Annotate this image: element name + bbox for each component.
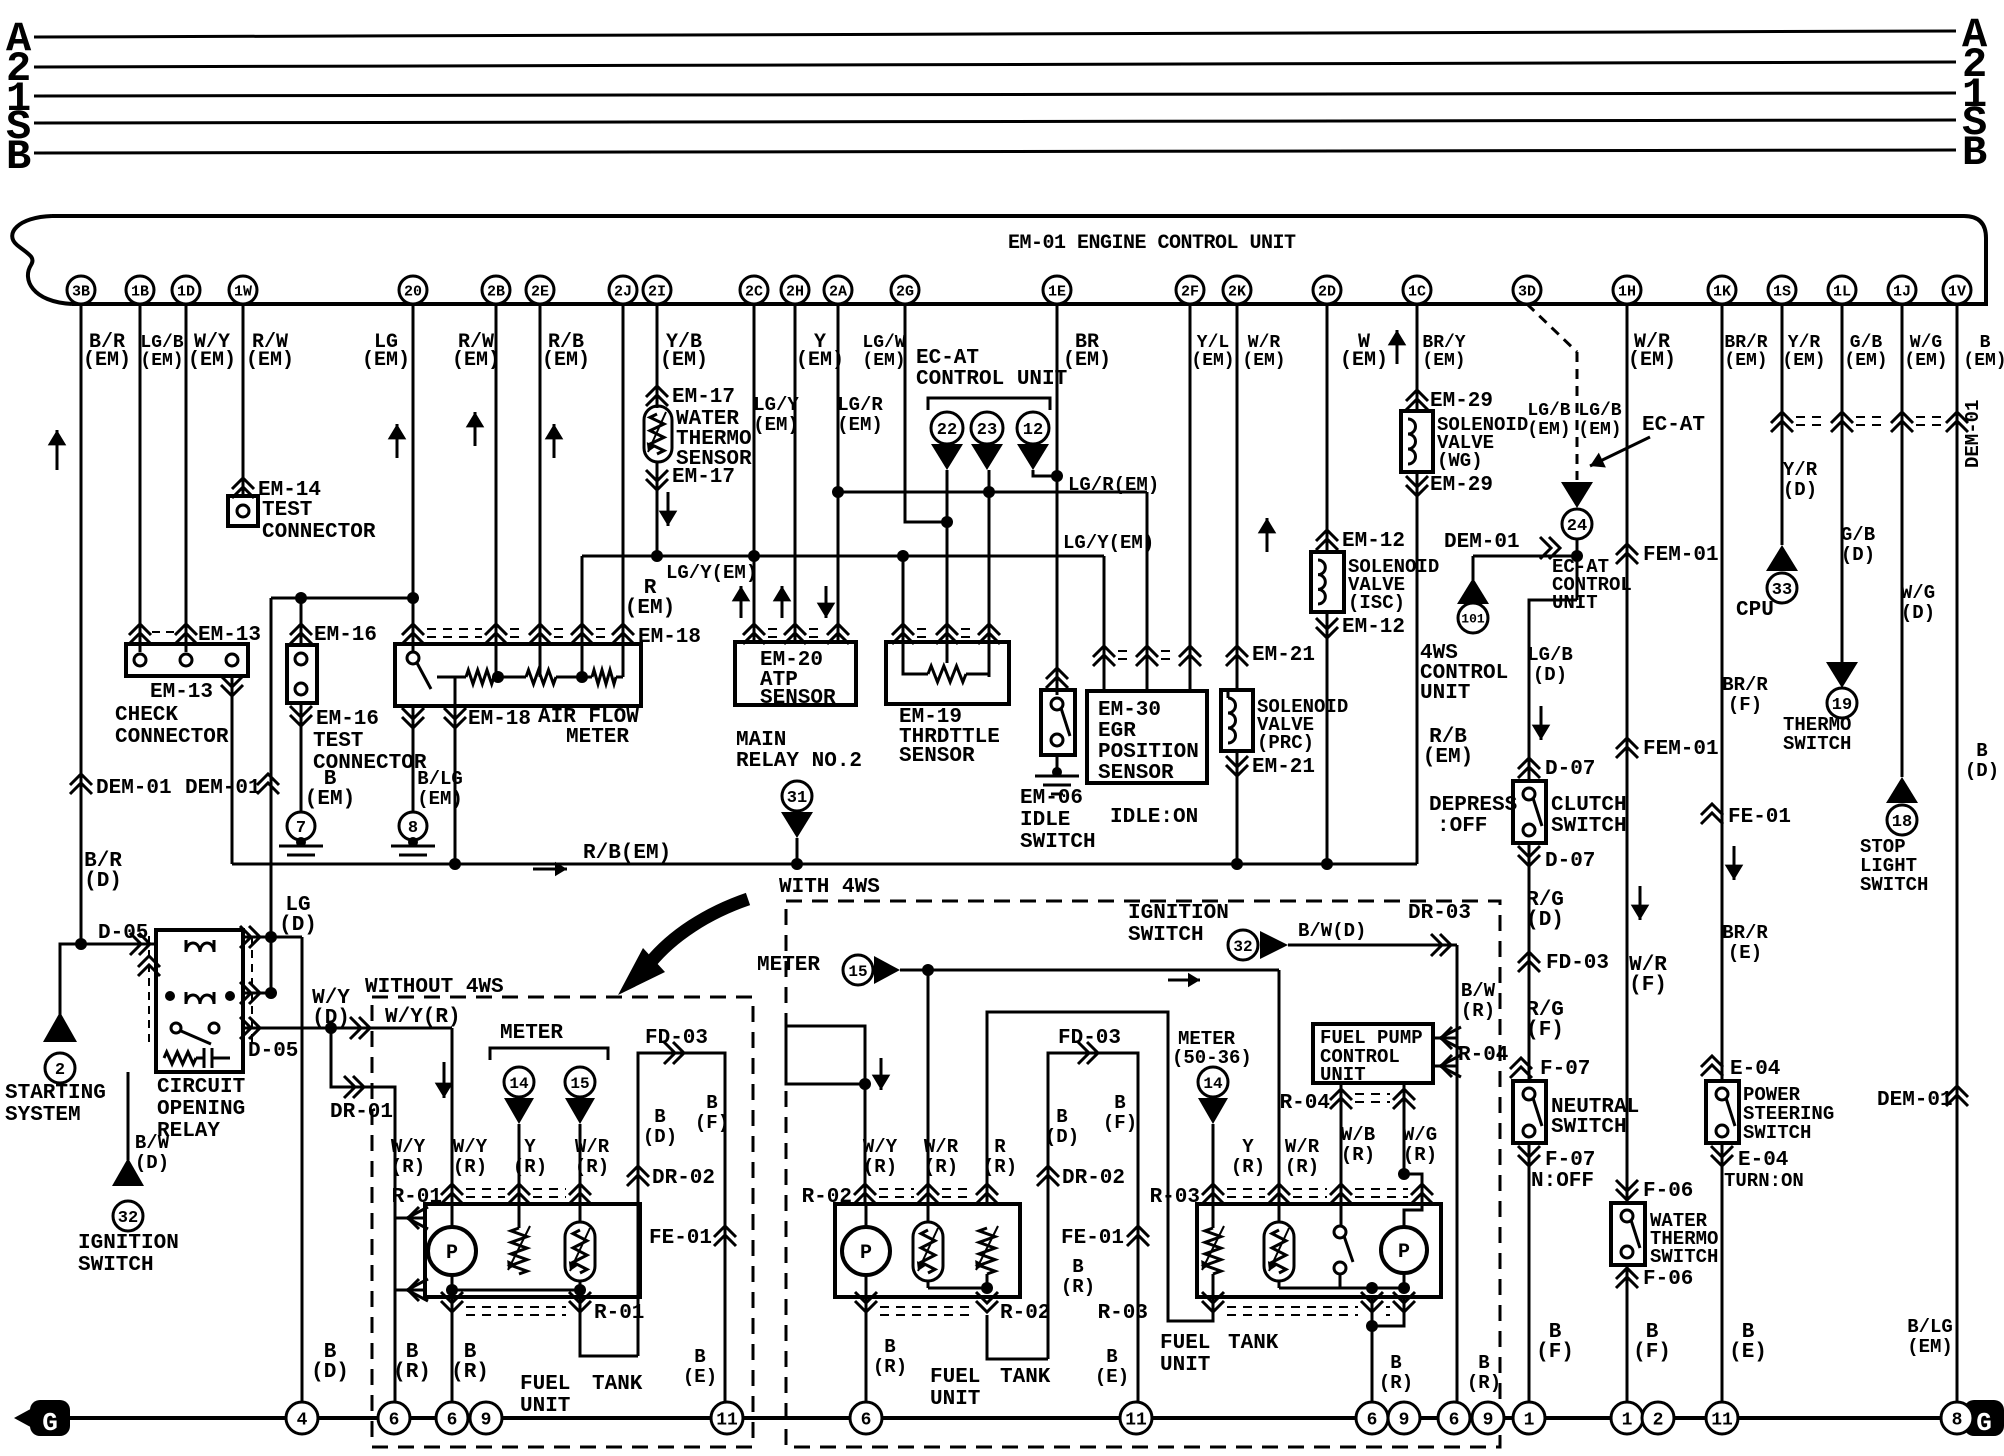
- svg-text:(EM): (EM): [1724, 351, 1767, 371]
- svg-text:SENSOR: SENSOR: [899, 745, 975, 768]
- svg-text:EGR: EGR: [1098, 720, 1136, 743]
- ECU pin 1S: [1768, 276, 1796, 304]
- svg-text:DEPRESS: DEPRESS: [1429, 794, 1517, 817]
- tank2 internal bottom: [928, 1287, 987, 1290]
- wire to ground circle 1b: [1626, 1265, 1629, 1402]
- solenoid valve WG box: [1401, 411, 1433, 472]
- svg-text:LG/Y: LG/Y: [753, 394, 799, 416]
- wire tank2 resistor to loop: [987, 1315, 1048, 1359]
- svg-text:OPENING: OPENING: [157, 1098, 245, 1121]
- wire tank3 B(R) to ground: [1371, 1297, 1374, 1402]
- svg-text:(R): (R): [1467, 1372, 1501, 1394]
- svg-text:METER: METER: [500, 1022, 563, 1045]
- svg-text:UNIT: UNIT: [1552, 592, 1598, 614]
- connector DR-02 tank1: [627, 1166, 649, 1177]
- svg-text:(E): (E): [1728, 942, 1762, 964]
- svg-text:1C: 1C: [1408, 283, 1426, 300]
- ground bus circle 8: [1941, 1402, 1973, 1434]
- svg-text:(EM): (EM): [305, 788, 355, 811]
- circuit opening relay box: [156, 930, 243, 1072]
- svg-text:31: 31: [787, 789, 807, 808]
- ignition switch circle 32: [113, 1201, 143, 1231]
- arrow on R/B bus: [533, 868, 567, 871]
- svg-text:(D): (D): [643, 1126, 677, 1148]
- svg-text:4: 4: [297, 1410, 308, 1430]
- fuel pump control unit box: [1313, 1024, 1433, 1083]
- connector F-06 below: [1616, 1268, 1638, 1279]
- svg-text:P: P: [860, 1242, 872, 1265]
- down arrow on 3D wire: [1540, 706, 1543, 740]
- bus line B: [34, 150, 1956, 153]
- connector chevron below EM-13: [221, 685, 243, 696]
- svg-text:SWITCH: SWITCH: [1020, 831, 1096, 854]
- svg-text:(F): (F): [695, 1112, 729, 1134]
- svg-text:FE-01: FE-01: [1728, 806, 1791, 829]
- svg-text:(EM): (EM): [625, 597, 675, 620]
- junction dot meter wire: [922, 964, 934, 976]
- gauge resistor tank3: [1205, 1228, 1221, 1274]
- wire 20 LG vertical: [412, 598, 415, 652]
- svg-text:(F): (F): [1633, 1341, 1671, 1364]
- wire to EM-16: [300, 598, 303, 645]
- svg-text:SWITCH: SWITCH: [1860, 874, 1928, 896]
- svg-text:RELAY NO.2: RELAY NO.2: [736, 750, 862, 773]
- wire 1W R/W vertical: [242, 304, 245, 496]
- wire 2G vertical with jog: [905, 304, 947, 522]
- svg-text:8: 8: [408, 819, 418, 838]
- svg-text:14: 14: [509, 1075, 529, 1093]
- wire 1J W/G vertical: [1901, 304, 1904, 777]
- bus line 1: [34, 93, 1956, 96]
- svg-text:(D): (D): [1841, 544, 1875, 566]
- connector EM-21 above: [1226, 646, 1248, 657]
- svg-text:9: 9: [481, 1410, 492, 1430]
- wire 3D to neutral switch: [1528, 843, 1531, 1081]
- svg-text:12: 12: [1023, 421, 1043, 440]
- ground symbol below 7: [296, 837, 306, 847]
- ground G symbol left: [14, 1406, 36, 1430]
- svg-text:(EM): (EM): [1063, 349, 1111, 372]
- ECU pin 1L: [1828, 276, 1856, 304]
- svg-text:EM-21: EM-21: [1252, 756, 1315, 779]
- water thermo switch box: [1611, 1203, 1645, 1265]
- wire LG/R(EM) horizontal: [838, 491, 1147, 494]
- svg-text:FUEL: FUEL: [930, 1366, 980, 1389]
- svg-text:TANK: TANK: [1000, 1366, 1051, 1389]
- tank1 stubs from left wire: [395, 1217, 425, 1220]
- ground bus circle 6: [850, 1402, 882, 1434]
- svg-text:DEM-01: DEM-01: [1444, 531, 1520, 554]
- air flow meter internal wire: [437, 676, 466, 679]
- svg-text:BR/R: BR/R: [1722, 674, 1768, 696]
- wire 2E vertical: [539, 304, 542, 677]
- EM-13 pin circles: [134, 654, 146, 666]
- tank1 internal bottom wire: [452, 1289, 580, 1292]
- ground below idle switch: [1056, 755, 1059, 772]
- svg-text:EM-06: EM-06: [1020, 787, 1083, 810]
- svg-text:LG/R: LG/R: [837, 394, 883, 416]
- svg-text:33: 33: [1772, 581, 1792, 600]
- connector FEM-01 lower: [1616, 738, 1638, 749]
- ground bus circle 6: [378, 1402, 410, 1434]
- svg-text:W/B: W/B: [1341, 1124, 1375, 1146]
- svg-text:IGNITION: IGNITION: [1128, 902, 1229, 925]
- svg-text:1B: 1B: [131, 283, 149, 300]
- svg-text:R-03: R-03: [1098, 1302, 1148, 1325]
- svg-text:(F): (F): [1103, 1112, 1137, 1134]
- svg-text:(EM): (EM): [1191, 351, 1234, 371]
- svg-text:SYSTEM: SYSTEM: [5, 1104, 81, 1127]
- svg-text:CPU: CPU: [1736, 599, 1774, 622]
- svg-text:(R): (R): [873, 1356, 907, 1378]
- ECU pin 2C: [740, 276, 768, 304]
- ground bus circle 9: [1472, 1402, 1504, 1434]
- svg-text:(EM): (EM): [660, 349, 708, 372]
- svg-text:STARTING: STARTING: [5, 1082, 106, 1105]
- wire 2B vertical: [495, 304, 498, 677]
- svg-text:(WG): (WG): [1437, 450, 1483, 472]
- connector R-04 right of box: [1433, 1037, 1457, 1040]
- svg-text:(EM): (EM): [862, 351, 905, 371]
- svg-text:UNIT: UNIT: [930, 1388, 980, 1411]
- gauge resistor tank1: [511, 1228, 527, 1274]
- up arrow on wire 3B: [56, 430, 59, 470]
- svg-text:LG/B: LG/B: [1527, 401, 1570, 421]
- connector chevron above idle switch: [1046, 668, 1068, 679]
- junction dot 2I on LG/Y line: [651, 550, 663, 562]
- wire LG/Y right end down to EGR: [1103, 556, 1106, 691]
- ground circle 7: [287, 812, 315, 840]
- connector DR-02 tank2: [1037, 1166, 1059, 1177]
- up arrow near wire 2D: [1396, 330, 1399, 364]
- svg-text:B: B: [1976, 740, 1987, 762]
- triangle right of 15: [874, 956, 900, 984]
- wire 2D vertical: [1326, 304, 1329, 552]
- connector DEM-01 on wire 3B: [70, 774, 92, 785]
- fuel tank 3 box: [1197, 1204, 1441, 1297]
- svg-text:(EM): (EM): [542, 349, 590, 372]
- svg-text:METER: METER: [757, 954, 820, 977]
- svg-text:UNIT: UNIT: [1420, 682, 1470, 705]
- relay switch: [171, 1023, 181, 1033]
- wire 2K to R/B bus: [1236, 751, 1239, 864]
- ECU pin 1D: [172, 276, 200, 304]
- svg-text:9: 9: [1483, 1410, 1494, 1430]
- svg-text:B: B: [6, 133, 31, 181]
- svg-text:LG/R(EM): LG/R(EM): [1068, 474, 1159, 496]
- svg-text:DEM-01: DEM-01: [1962, 400, 1984, 468]
- svg-text:(R): (R): [513, 1156, 547, 1178]
- wire 3B B/R vertical: [80, 304, 83, 944]
- ground circle 8: [399, 812, 427, 840]
- svg-text:B/W: B/W: [1461, 980, 1496, 1002]
- wire W/B down: [1340, 1098, 1343, 1226]
- svg-text:3B: 3B: [72, 283, 90, 300]
- wire 2D to R/B bus: [1326, 612, 1329, 864]
- svg-text:LG/B: LG/B: [140, 333, 183, 353]
- svg-text:(EM): (EM): [1578, 420, 1621, 440]
- connector row below tank2: [880, 1306, 973, 1308]
- wire R/B(EM) horizontal bus: [232, 863, 1417, 866]
- svg-text:TURN:ON: TURN:ON: [1724, 1170, 1804, 1192]
- svg-text:G: G: [1976, 1408, 1992, 1438]
- svg-text:6: 6: [861, 1410, 872, 1430]
- ground bus: [52, 1416, 1966, 1420]
- connector D-07 above clutch: [1518, 758, 1540, 769]
- svg-text:Y/R: Y/R: [1788, 333, 1821, 353]
- wire W/R down to tank2: [927, 970, 930, 1222]
- svg-text:CONTROL UNIT: CONTROL UNIT: [916, 368, 1067, 391]
- svg-text:2J: 2J: [614, 283, 632, 300]
- svg-text:W/Y: W/Y: [453, 1136, 488, 1158]
- svg-text:F-06: F-06: [1643, 1268, 1693, 1291]
- small arrow on meter wire: [1168, 979, 1200, 982]
- svg-text:EM-21: EM-21: [1252, 644, 1315, 667]
- svg-text:(EM): (EM): [1242, 351, 1285, 371]
- ignition switch circle 32 right: [1228, 930, 1258, 960]
- wire R(R) loop to tank3: [987, 1012, 1213, 1321]
- connector FD-03 on 3D wire: [1518, 952, 1540, 963]
- svg-text:SWITCH: SWITCH: [1551, 1116, 1627, 1139]
- svg-text:(EM): (EM): [1628, 349, 1676, 372]
- wire 1S Y/R vertical: [1781, 304, 1784, 545]
- connector EM-14 chevron: [232, 478, 254, 489]
- without 4WS dashed box: [372, 997, 753, 1447]
- svg-text:R: R: [994, 1136, 1006, 1158]
- svg-text:DEM-01: DEM-01: [185, 777, 261, 800]
- connector row above EGR sensor: [1118, 650, 1133, 652]
- svg-text:1J: 1J: [1893, 283, 1911, 300]
- svg-text:W/Y(R): W/Y(R): [385, 1006, 461, 1029]
- svg-text:(D): (D): [1783, 479, 1817, 501]
- svg-text:R/B(EM): R/B(EM): [583, 842, 671, 865]
- svg-text:METER: METER: [566, 726, 629, 749]
- svg-text:6: 6: [1449, 1410, 1460, 1430]
- svg-text:POSITION: POSITION: [1098, 741, 1199, 764]
- check connector EM-13 box: [126, 644, 248, 676]
- terminal 31 triangle: [782, 781, 812, 811]
- ground bus circle 9: [1388, 1402, 1420, 1434]
- svg-text:IGNITION: IGNITION: [78, 1232, 179, 1255]
- junction dot 31: [791, 858, 803, 870]
- wire 1E vertical: [1056, 304, 1059, 695]
- svg-text:(F): (F): [1629, 974, 1667, 997]
- svg-text:(EM): (EM): [1782, 351, 1825, 371]
- solenoid valve PRC box: [1221, 690, 1253, 751]
- svg-text:(E): (E): [1095, 1366, 1129, 1388]
- svg-text:LG/B: LG/B: [1578, 401, 1621, 421]
- ECU pin 2J: [609, 276, 637, 304]
- svg-text:2H: 2H: [786, 283, 804, 300]
- wire 1K BR/R vertical: [1721, 304, 1724, 1081]
- ECU pin 1W: [229, 276, 257, 304]
- svg-text:CONNECTOR: CONNECTOR: [115, 726, 229, 749]
- svg-text:DEM-01: DEM-01: [96, 777, 172, 800]
- wire meter horizontal: [900, 969, 1279, 972]
- up arrow near wire 2K: [1266, 518, 1269, 552]
- svg-text:(EM): (EM): [188, 349, 236, 372]
- wire LG/Y(EM) horizontal: [582, 555, 1104, 558]
- wire 1D vertical: [185, 304, 188, 652]
- ground bus circle 6: [1356, 1402, 1388, 1434]
- connector EM-16 chevron above: [290, 624, 312, 635]
- connector EM-13 marks: [129, 624, 151, 635]
- svg-text:E-04: E-04: [1738, 1149, 1788, 1172]
- svg-text:(D): (D): [1526, 909, 1564, 932]
- svg-text:2: 2: [55, 1061, 65, 1080]
- METER bracket tank1: [490, 1048, 608, 1060]
- svg-text:EM-16: EM-16: [314, 624, 377, 647]
- junction dot meter loop: [859, 1078, 871, 1090]
- wire tank1 pump to ground 6: [451, 1297, 454, 1402]
- relay resistor capacitor: [164, 1052, 196, 1064]
- down arrow wire 2A: [825, 586, 828, 618]
- svg-text:BR/R: BR/R: [1724, 333, 1767, 353]
- down arrow right of loop: [880, 1058, 883, 1090]
- air flow meter resistor 2: [526, 670, 556, 684]
- svg-text:B: B: [1106, 1346, 1117, 1368]
- junction dot on wire 1E: [1051, 470, 1063, 482]
- connector FE-01 tank2: [1127, 1226, 1149, 1237]
- svg-text:EM-13: EM-13: [150, 681, 213, 704]
- svg-text:FEM-01: FEM-01: [1643, 544, 1719, 567]
- wire LG/R down to EGR: [1146, 492, 1149, 691]
- svg-text:SWITCH: SWITCH: [1783, 733, 1851, 755]
- svg-text:(D): (D): [84, 870, 122, 893]
- svg-text:2G: 2G: [896, 283, 914, 300]
- svg-text:(R): (R): [924, 1156, 958, 1178]
- connector row R-03 tank3: [1227, 1188, 1265, 1190]
- wire B/W(D) to DR-03: [1288, 944, 1457, 947]
- idle switch EM-06 box: [1041, 690, 1075, 755]
- connector F-07 above neutral: [1510, 1058, 1532, 1069]
- svg-text:(EM): (EM): [1422, 351, 1465, 371]
- air flow meter box: [395, 644, 641, 706]
- connector E-04 below: [1711, 1155, 1733, 1166]
- svg-text:(EM): (EM): [1527, 420, 1570, 440]
- svg-text:B: B: [706, 1092, 717, 1114]
- svg-text:(D): (D): [1045, 1126, 1079, 1148]
- svg-text:(EM): (EM): [753, 414, 799, 436]
- svg-text:W/R: W/R: [924, 1136, 959, 1158]
- fuel pump tank3: [1381, 1227, 1427, 1273]
- svg-text:TEST: TEST: [313, 730, 363, 753]
- wire 15 down tank1: [579, 1124, 582, 1222]
- ground G symbol right: [1964, 1400, 2004, 1436]
- svg-text:G/B: G/B: [1841, 524, 1875, 546]
- triangle below 22: [931, 444, 963, 470]
- big arrow WITH 4WS pointer: [650, 899, 748, 963]
- svg-text:WITH 4WS: WITH 4WS: [779, 876, 880, 899]
- connector F-07 below: [1518, 1155, 1540, 1166]
- EGR position sensor EM-30 box: [1087, 691, 1207, 783]
- relay mid wire: [243, 992, 271, 995]
- svg-text:EM-16: EM-16: [316, 708, 379, 731]
- ECU pin 2D: [1313, 276, 1341, 304]
- EC-AT terminal triangle 24: [1561, 482, 1593, 508]
- wire 2F vertical: [1189, 304, 1192, 691]
- wire 14 down tank1: [518, 1124, 521, 1228]
- svg-text:FEM-01: FEM-01: [1643, 738, 1719, 761]
- svg-text:(D): (D): [279, 914, 317, 937]
- svg-text:W/G: W/G: [1901, 582, 1935, 604]
- thermo switch circle 19: [1827, 688, 1857, 718]
- connector row above throttle sensor: [917, 628, 933, 630]
- svg-text:6: 6: [1367, 1410, 1378, 1430]
- connector EM-29 above: [1406, 390, 1428, 401]
- svg-text:1W: 1W: [234, 283, 252, 300]
- fuel sender tank1: [565, 1222, 595, 1281]
- svg-text:(D): (D): [135, 1152, 169, 1174]
- svg-text:6: 6: [447, 1410, 458, 1430]
- svg-text:(R): (R): [1403, 1144, 1437, 1166]
- svg-text:32: 32: [118, 1209, 138, 1228]
- W/G jog: [1404, 1174, 1422, 1227]
- wire tank1 sender to loop: [580, 1297, 638, 1356]
- svg-text:(F): (F): [1526, 1019, 1564, 1042]
- svg-text:G: G: [42, 1408, 58, 1438]
- svg-text:(EM): (EM): [246, 349, 294, 372]
- terminal circle 22: [931, 412, 963, 444]
- svg-text:EM-17: EM-17: [672, 386, 735, 409]
- triangle below 23: [971, 444, 1003, 470]
- svg-text:14: 14: [1203, 1075, 1223, 1093]
- ECU box EM-01 ENGINE CONTROL UNIT: [52, 216, 1986, 304]
- ECU pin 1E: [1043, 276, 1071, 304]
- ECU pin 20: [399, 276, 427, 304]
- ATP sensor EM-20 box: [735, 642, 856, 705]
- wire DR-01 jog: [331, 1028, 395, 1402]
- dashed connector row top right: [1796, 416, 1828, 418]
- svg-text:1K: 1K: [1713, 283, 1731, 300]
- svg-text:(E): (E): [1729, 1341, 1767, 1364]
- relay coil 1: [186, 943, 214, 952]
- wire 1H W/R vertical: [1626, 304, 1629, 1203]
- wire 455 to R/B bus: [454, 706, 457, 864]
- svg-text:2D: 2D: [1318, 283, 1336, 300]
- svg-text:1E: 1E: [1048, 283, 1066, 300]
- relay coil 2: [186, 995, 214, 1004]
- ground symbol below 8: [408, 837, 418, 847]
- svg-text:FE-01: FE-01: [1061, 1227, 1124, 1250]
- svg-text:DR-01: DR-01: [330, 1101, 393, 1124]
- svg-text:FD-03: FD-03: [1546, 952, 1609, 975]
- svg-text:9: 9: [1399, 1410, 1410, 1430]
- meter loop rectangle: [786, 1026, 865, 1084]
- svg-text:1: 1: [1524, 1410, 1535, 1430]
- svg-text:LG/Y(EM): LG/Y(EM): [666, 562, 757, 584]
- svg-text:(R): (R): [1061, 1276, 1095, 1298]
- wire W/Y tank2: [864, 1084, 867, 1204]
- connector below air flow meter: [402, 717, 424, 728]
- svg-text:W/G: W/G: [1910, 333, 1942, 353]
- ground bus circle 9: [470, 1402, 502, 1434]
- wire relay to ignition switch: [127, 1072, 130, 1160]
- relay side connector dashes right: [251, 936, 253, 1046]
- svg-text:Y: Y: [1242, 1136, 1254, 1158]
- svg-text:D-07: D-07: [1545, 758, 1595, 781]
- meter circle 15 right: [843, 955, 873, 985]
- ECU pin 2G: [891, 276, 919, 304]
- relay side connector dashes left: [148, 936, 150, 1046]
- svg-text:(D): (D): [311, 1361, 349, 1384]
- meter circle 14 tank3: [1198, 1067, 1228, 1097]
- svg-text:(EM): (EM): [1340, 349, 1388, 372]
- clutch switch box: [1513, 781, 1546, 843]
- svg-text:11: 11: [1711, 1410, 1733, 1430]
- svg-text:P: P: [1398, 1241, 1410, 1264]
- wire to ground circle 11c: [1721, 1143, 1724, 1402]
